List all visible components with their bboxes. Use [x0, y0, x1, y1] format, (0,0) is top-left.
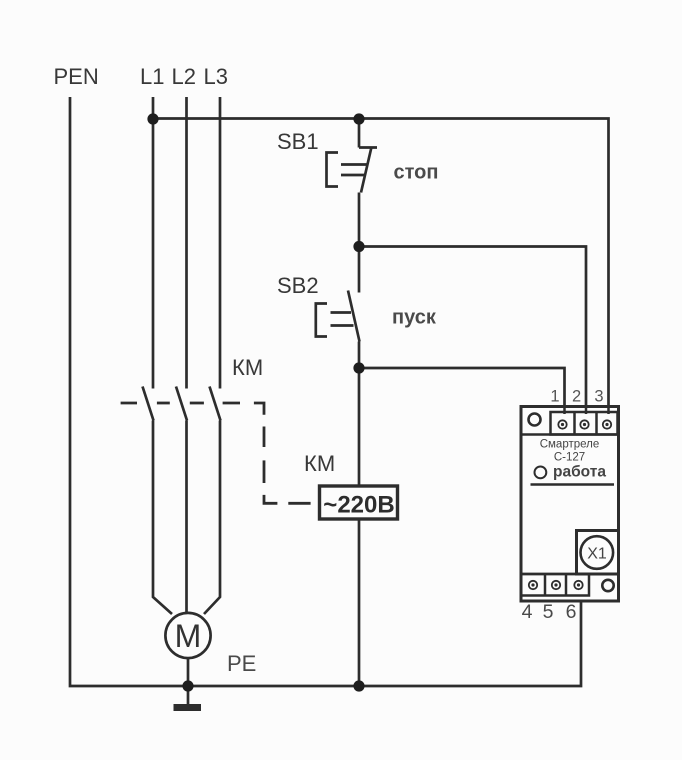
svg-text:4: 4: [522, 601, 533, 623]
svg-text:X1: X1: [587, 546, 607, 563]
svg-text:L2: L2: [172, 64, 196, 89]
svg-text:5: 5: [543, 601, 554, 623]
svg-text:6: 6: [566, 601, 577, 623]
svg-text:PEN: PEN: [54, 64, 99, 89]
svg-text:M: M: [175, 618, 202, 654]
svg-text:КМ: КМ: [232, 355, 263, 380]
svg-text:SB1: SB1: [277, 129, 319, 154]
svg-text:L1: L1: [140, 64, 164, 89]
svg-text:2: 2: [572, 388, 581, 406]
svg-text:пуск: пуск: [392, 307, 437, 329]
svg-text:С-127: С-127: [554, 452, 585, 464]
svg-text:~220В: ~220В: [323, 492, 394, 519]
svg-text:PE: PE: [227, 651, 256, 676]
svg-text:3: 3: [594, 388, 603, 406]
svg-text:1: 1: [550, 388, 559, 406]
svg-text:работа: работа: [553, 463, 606, 480]
svg-text:КМ: КМ: [304, 451, 335, 476]
svg-text:SB2: SB2: [277, 273, 319, 298]
svg-text:стоп: стоп: [394, 162, 439, 184]
svg-text:Смартреле: Смартреле: [540, 439, 600, 451]
svg-text:L3: L3: [204, 64, 228, 89]
